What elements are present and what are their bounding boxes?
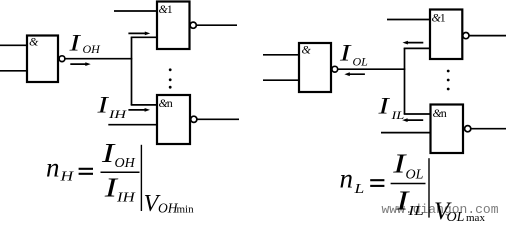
output bubble of U1 — [190, 22, 196, 28]
svg-text:IH: IH — [116, 190, 136, 205]
svg-text:I: I — [101, 137, 116, 167]
svg-text:IL: IL — [407, 204, 424, 219]
wire: U1 output — [197, 24, 238, 26]
wire: G1 output to branch node — [65, 58, 132, 60]
current arrow I_IL out of Um (leftward) — [402, 118, 423, 122]
wire: Un output — [197, 118, 239, 120]
wire: right driver input A — [263, 54, 299, 56]
wire: Um lower input — [381, 132, 431, 134]
svg-text:n: n — [46, 153, 60, 183]
ellipsis dots (left fan-out) — [169, 68, 172, 88]
NAND gate Un ("&n", bottom load, left) — [157, 95, 190, 144]
svg-text:OL: OL — [447, 210, 465, 223]
wire: branch to U2 lower input — [404, 47, 430, 49]
svg-text:max: max — [466, 212, 485, 223]
svg-text:1: 1 — [440, 11, 446, 25]
current arrow out of U2 (leftward) — [403, 41, 424, 45]
wire: branch to Un upper input — [131, 104, 157, 106]
NAND gate U1 ("&1", top load, left) — [157, 2, 190, 50]
current arrow I_IH into Un (rightward) — [128, 108, 150, 112]
wire: Um output — [471, 128, 506, 130]
wire: G2 output to branch node — [338, 68, 405, 70]
formula n_H = I_OH / I_IH | V_OHmin — [46, 137, 194, 216]
formula n_L = I_OL / I_IL | V_OLmax — [340, 148, 486, 225]
current arrow I_OL (leftward) — [344, 72, 365, 76]
svg-text:IL: IL — [390, 108, 404, 122]
label I_OH — [68, 30, 101, 56]
svg-text:1: 1 — [167, 2, 173, 16]
wire: left driver input A — [0, 44, 27, 46]
svg-text:n: n — [441, 106, 447, 120]
svg-text:H: H — [59, 169, 74, 184]
svg-text:OH: OH — [83, 42, 102, 56]
wire: branch to U1 lower input — [131, 36, 157, 38]
wire: U2 upper input — [387, 19, 430, 21]
wire: branch to Um upper input — [404, 113, 431, 115]
NAND gate G1 (left driver, "&") — [27, 36, 58, 83]
label I_OL — [339, 40, 368, 68]
ellipsis dots (right fan-out) — [447, 70, 450, 91]
svg-text:IH: IH — [108, 108, 127, 121]
output bubble of U2 — [463, 33, 469, 39]
NAND gate Um ("&n", bottom load, right) — [431, 105, 464, 154]
label I_IL — [377, 93, 404, 121]
wire: Un lower input — [108, 124, 157, 126]
svg-text:n: n — [167, 96, 173, 110]
output bubble of G1 — [59, 56, 65, 62]
output bubble of Um — [465, 126, 471, 132]
label I_IH — [96, 92, 127, 121]
svg-text:&: & — [29, 35, 39, 49]
wire: branch vertical (right fan-out bus) — [404, 48, 406, 114]
wire: U2 output — [469, 35, 506, 37]
wire: branch vertical (left fan-out bus) — [131, 37, 133, 105]
wire: U1 upper input — [114, 10, 157, 12]
svg-text:n: n — [340, 164, 354, 194]
NAND gate G2 (right driver, "&") — [299, 43, 331, 92]
svg-text:OL: OL — [406, 168, 424, 183]
svg-text:OH: OH — [115, 156, 136, 171]
wire: left driver input B — [0, 70, 27, 72]
current arrow I_OH (rightward) — [70, 62, 90, 66]
svg-text:min: min — [177, 203, 195, 215]
output bubble of G2 — [332, 66, 338, 72]
current arrow into U1 (rightward) — [128, 32, 150, 36]
svg-text:L: L — [353, 181, 364, 196]
wire: right driver input B — [263, 79, 299, 81]
output bubble of Un — [191, 116, 197, 122]
NAND gate U2 ("&1", top load, right) — [430, 10, 462, 60]
svg-text:&: & — [302, 43, 312, 57]
svg-text:OL: OL — [353, 55, 369, 69]
